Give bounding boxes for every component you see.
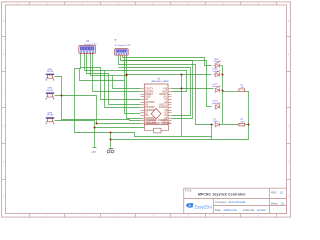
wire U1 right pin R12 up to top bus bbox=[123, 61, 193, 119]
frame column ticks bottom bbox=[30, 214, 277, 218]
U1 USB bracket below bbox=[145, 125, 169, 131]
svg-text:KEY-B3: KEY-B3 bbox=[47, 90, 54, 92]
wire ground return from node B down to bottom bus bbox=[181, 75, 183, 137]
svg-text:Company:: Company: bbox=[215, 200, 227, 204]
svg-text:RESET: RESET bbox=[145, 94, 153, 96]
svg-text:EasyEDA: EasyEDA bbox=[195, 205, 213, 210]
svg-text:GND/SHIELD OUTLINE: GND/SHIELD OUTLINE bbox=[146, 123, 171, 125]
switch SW2 pins bbox=[46, 98, 54, 99]
wire GND stub down bbox=[110, 133, 112, 148]
svg-text:Joystick_PS2: Joystick_PS2 bbox=[84, 43, 97, 46]
svg-text:D5/PWM: D5/PWM bbox=[145, 107, 154, 109]
svg-text:VIN: VIN bbox=[163, 89, 167, 91]
U1 pin name text right column bbox=[159, 89, 168, 126]
wire SW2 to junction and U1 pin L13 bbox=[55, 96, 141, 124]
wire D1 cathode to R2 bbox=[221, 124, 239, 126]
wire U1 right pin R11 up to top bus bbox=[119, 68, 191, 116]
U1 USB connector rect bbox=[153, 128, 161, 133]
switch SW3 cap bbox=[46, 117, 54, 118]
node SW1/SW2 junction bbox=[61, 95, 63, 97]
svg-text:TITLE:: TITLE: bbox=[185, 189, 193, 192]
svg-text:D3/PWM: D3/PWM bbox=[145, 102, 154, 104]
switch SW3 pins bbox=[46, 123, 54, 124]
power flag +5V bbox=[93, 147, 97, 149]
U1 internal diamond bbox=[151, 109, 161, 119]
node U2 pin5 / U3 pin4 ext bbox=[126, 75, 128, 77]
LED2 diode symbol bbox=[214, 71, 221, 77]
svg-text:2019-11-03: 2019-11-03 bbox=[224, 208, 238, 212]
svg-text:U2 Joystick_PS2: U2 Joystick_PS2 bbox=[115, 44, 132, 47]
node LED2 cathode bus bbox=[222, 74, 224, 76]
wire bus to R1 bbox=[223, 91, 239, 93]
wire U3 pin2 to U1 pin L8 bbox=[85, 54, 141, 108]
svg-text:TX1/TX: TX1/TX bbox=[145, 89, 153, 91]
switch SW2 cap bbox=[46, 92, 54, 93]
wire branch top bus to U1 right pin R2 bbox=[105, 71, 187, 92]
wire R2 to right rail junction bbox=[245, 124, 249, 126]
node LED2 net ground tap bbox=[181, 74, 183, 76]
wire R1 to right rail bbox=[245, 92, 249, 125]
wire lower rail at y81 bbox=[80, 69, 125, 81]
wire long left rail to bottom bus bbox=[75, 69, 212, 137]
node resistor rail join bbox=[248, 124, 250, 126]
node LED3 cathode bus bbox=[222, 90, 224, 92]
node LED3 anode rail tap bbox=[181, 88, 183, 90]
U3 pin stubs bbox=[81, 54, 93, 55]
wire SW1 to node A vertical bus bbox=[55, 54, 249, 148]
wire +5V rail stub bbox=[95, 127, 145, 129]
U1 pin name text left column bbox=[145, 89, 156, 126]
switch SW1 body bbox=[47, 75, 52, 78]
switch SW3 body bbox=[47, 119, 52, 122]
svg-text:Green: Green bbox=[213, 85, 220, 88]
frame row ticks right bbox=[287, 37, 291, 180]
wire D1 anode riser to bottom bus bbox=[211, 125, 213, 140]
wire U3 pin3 to U1 pin L7 bbox=[87, 54, 141, 105]
frame column ticks top bbox=[30, 2, 277, 5]
svg-text:MPCNC Joystick Controller: MPCNC Joystick Controller bbox=[198, 192, 246, 196]
wire U2 pin1 to diode D1 bbox=[119, 57, 214, 125]
connector U3 body bbox=[79, 45, 96, 53]
EasyEDA logo cloud bbox=[186, 203, 193, 208]
wire U3 pin1 jog bbox=[75, 54, 81, 69]
frame row ticks left bbox=[2, 37, 6, 180]
svg-text:KEY-B3: KEY-B3 bbox=[47, 115, 54, 117]
frame inner border bbox=[6, 5, 287, 214]
node +5V rail bbox=[94, 127, 96, 129]
connector U2 body bbox=[115, 49, 129, 56]
svg-text:A4/SDA: A4/SDA bbox=[159, 106, 168, 109]
node D1 anode riser bbox=[211, 124, 213, 126]
junction node dots bbox=[61, 74, 250, 141]
wire node at U2 pin5 to LED2 anode bbox=[127, 74, 212, 76]
svg-text:Drawn By:: Drawn By: bbox=[243, 208, 255, 212]
LED1 diode symbol bbox=[214, 61, 221, 68]
ground GND symbol bbox=[107, 148, 114, 153]
U1 right pins bbox=[169, 89, 172, 124]
wire U2 pin4 to U1 pin L10 bbox=[125, 57, 141, 114]
wire U3 pin4 to U1 pin L1 bbox=[91, 54, 141, 89]
svg-text:1.0: 1.0 bbox=[280, 191, 284, 195]
svg-text:ARDUINO_NANO: ARDUINO_NANO bbox=[152, 80, 170, 83]
node U2 pin5 / LED2 net bbox=[126, 74, 128, 76]
node GND bus lower bbox=[110, 139, 112, 141]
U3 pin pads bbox=[80, 51, 93, 53]
op IC U1 ARDUINO_NANO body bbox=[144, 84, 168, 125]
wire U3 pin4 extension to node bbox=[113, 75, 127, 77]
LED3 diode symbol bbox=[215, 86, 220, 93]
svg-text:Armin Thomas: Armin Thomas bbox=[229, 200, 247, 204]
U3 inner blue block bbox=[80, 46, 94, 50]
svg-text:Yellow: Yellow bbox=[213, 71, 219, 73]
svg-text:KEY-B3: KEY-B3 bbox=[47, 71, 54, 73]
wire bottom bus to resistor rail bbox=[111, 125, 249, 140]
svg-text:A5/SCL: A5/SCL bbox=[159, 104, 168, 107]
node SW2 to U1 corner bbox=[96, 123, 98, 125]
wire U1 right pin R1 to LED3 bbox=[172, 88, 214, 90]
svg-text:1/1: 1/1 bbox=[281, 201, 285, 205]
LED4 diode symbol bbox=[215, 103, 220, 110]
U2 +5V power flag bbox=[115, 40, 117, 42]
svg-text:+5V: +5V bbox=[91, 150, 96, 154]
svg-text:SS14: SS14 bbox=[214, 121, 220, 123]
wire U2 pin3 to LED1 bbox=[123, 57, 212, 66]
switch SW1 cap bbox=[46, 74, 54, 75]
wire U3 pin1b to U1 pin L5 bbox=[81, 68, 141, 100]
svg-text:Date:: Date: bbox=[215, 208, 221, 212]
resistor R2 bbox=[239, 123, 245, 126]
wire SW3 to +5V rail bbox=[55, 121, 95, 148]
U2 pin pads bbox=[116, 53, 127, 54]
resistor R1 bbox=[239, 89, 245, 92]
frame grid reference numbers bbox=[3, 3, 290, 217]
title block border bbox=[184, 188, 287, 213]
svg-text:RESET: RESET bbox=[159, 94, 167, 96]
wire LED1 cathode to bus bbox=[221, 65, 223, 67]
U2 pin stubs bbox=[119, 56, 127, 57]
diode D1 symbol bbox=[215, 123, 220, 127]
wire U3 pin5 to U1 pin L2 bbox=[93, 54, 141, 92]
wire U2 pin5 to U1 pin L12 bbox=[127, 57, 141, 119]
wire U2 pin2 to LED4 bbox=[121, 57, 212, 107]
U2 inner blue block bbox=[116, 49, 128, 52]
svg-text:arminth: arminth bbox=[257, 208, 266, 212]
U1 left pins bbox=[141, 89, 145, 124]
switch SW1 pins bbox=[46, 79, 54, 80]
svg-text:Sheet:: Sheet: bbox=[271, 201, 279, 205]
node GND bus upper bbox=[110, 132, 112, 134]
wire LED cathode bus bbox=[222, 66, 224, 125]
switch SW2 body bbox=[47, 94, 52, 97]
svg-text:REV:: REV: bbox=[271, 191, 277, 195]
